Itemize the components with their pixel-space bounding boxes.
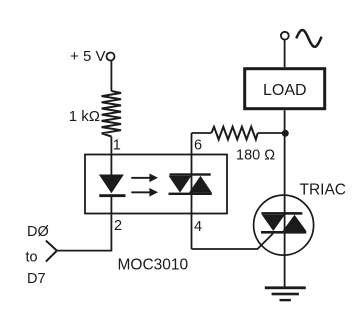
svg-text:MOC3010: MOC3010 (118, 257, 189, 274)
svg-text:+ 5 V: + 5 V (70, 48, 105, 65)
svg-text:to: to (26, 250, 38, 266)
svg-text:4: 4 (194, 219, 202, 235)
svg-text:6: 6 (194, 138, 202, 154)
svg-text:D7: D7 (27, 271, 46, 287)
svg-text:2: 2 (114, 218, 122, 234)
svg-text:TRIAC: TRIAC (300, 182, 347, 199)
svg-text:180 Ω: 180 Ω (236, 148, 275, 164)
svg-text:LOAD: LOAD (263, 82, 307, 99)
svg-text:1: 1 (113, 138, 121, 154)
svg-text:DØ: DØ (27, 224, 49, 240)
svg-text:1 kΩ: 1 kΩ (69, 108, 100, 125)
